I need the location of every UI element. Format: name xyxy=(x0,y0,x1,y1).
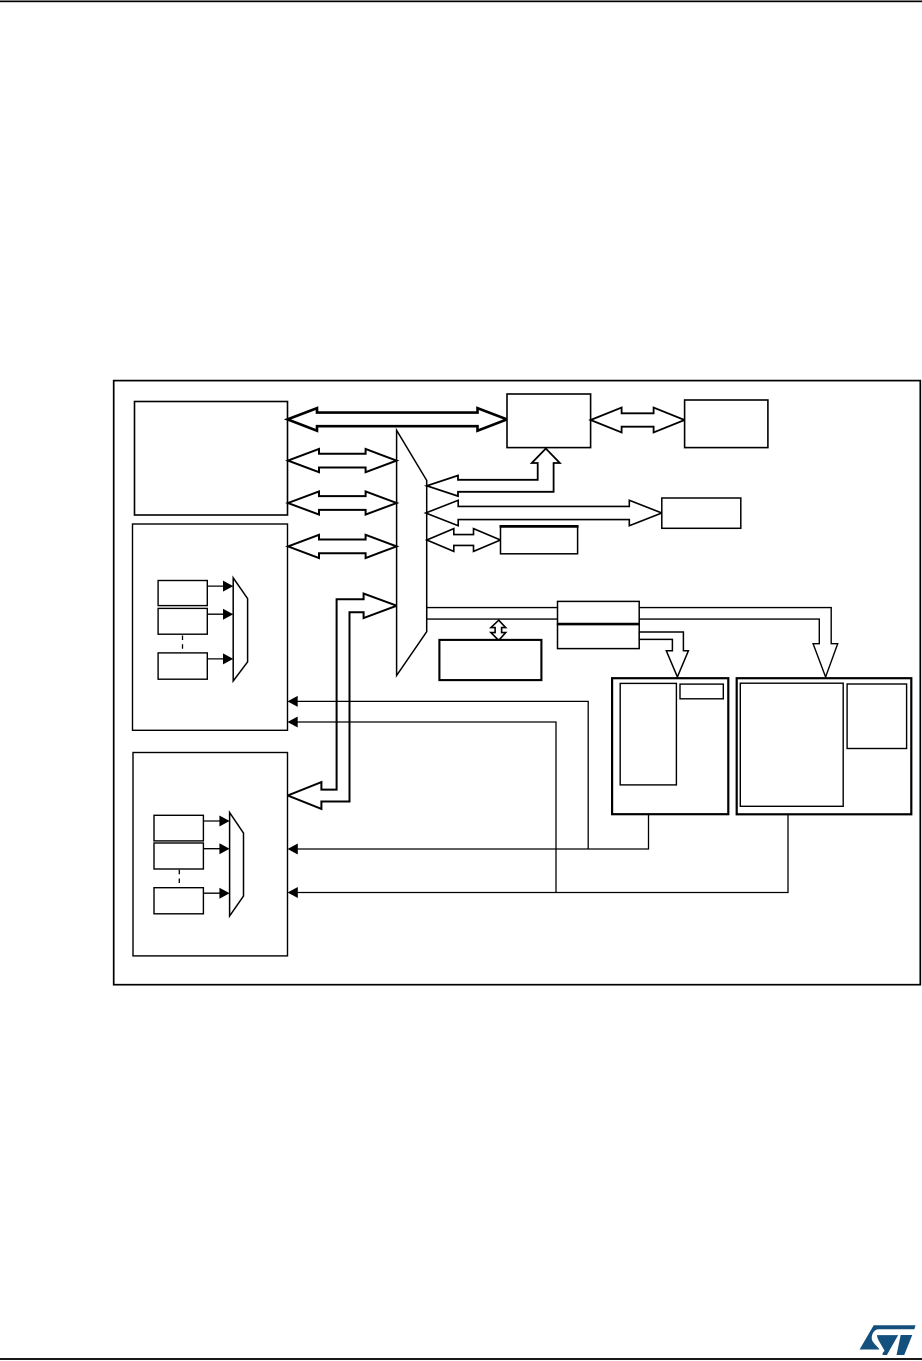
block Flash memory xyxy=(685,400,768,448)
bottom page rule xyxy=(0,1358,922,1360)
block Flash interface xyxy=(507,394,591,448)
block DMA1 channel 7 xyxy=(158,653,207,679)
logo STMicroelectronics xyxy=(860,1325,916,1355)
wire APB2 requests to DMA2 xyxy=(298,806,788,893)
wire APB1 requests to DMA2 xyxy=(298,785,649,849)
wire ch5 to arbiter2 xyxy=(203,892,220,894)
arrow DCode bus xyxy=(288,449,397,472)
arrow bus matrix to Flash I/F xyxy=(427,449,560,497)
block AHB-APB bridge 1 xyxy=(558,624,640,649)
arrowhead ch2-2 xyxy=(219,843,229,854)
arrow ICode bus (CPU to Flash I/F) xyxy=(288,408,508,431)
wire ch7 to arbiter xyxy=(207,658,224,660)
wire APB1 requests to DMA1 xyxy=(298,701,589,849)
arrow bus to SRAM xyxy=(491,620,506,640)
block APB1 peripheral list xyxy=(620,683,676,785)
arrowhead ch7 xyxy=(223,653,233,664)
arrow System bus xyxy=(288,491,397,514)
DMA2 arbiter xyxy=(230,813,244,917)
arrow DMA2 bus (bus matrix to DMA2) xyxy=(288,594,397,809)
arrowhead request DMA1-APB1 xyxy=(288,696,298,707)
block SRAM xyxy=(439,640,541,680)
block DMA2 xyxy=(133,753,288,956)
arrow bus matrix to FSMC xyxy=(427,529,501,552)
block DMA1 xyxy=(133,524,288,730)
block APB2 peripheral list xyxy=(740,683,843,806)
wire APB2 requests to DMA1 xyxy=(298,722,557,893)
arrow bridge to APB1 group xyxy=(639,632,688,677)
DMA1 channel ellipsis xyxy=(182,636,184,654)
block RCC xyxy=(662,498,741,528)
block DMA2 channel 1 xyxy=(154,815,203,841)
arrow Flash I/F to Flash memory xyxy=(591,408,685,433)
wire ch2 to arbiter xyxy=(207,613,224,615)
DMA2 channel ellipsis xyxy=(178,870,180,888)
arrowhead request DMA2-APB1 xyxy=(288,844,298,855)
block DMA2 channel 2 xyxy=(154,843,203,869)
wire AHB system bus + arrow to APB2 group xyxy=(427,608,838,677)
block DMA1 channel 2 xyxy=(158,608,207,634)
block FSMC xyxy=(501,526,578,553)
wire ch1 to arbiter xyxy=(207,585,224,587)
arrowhead ch1 xyxy=(223,581,233,592)
block DMA2 channel 5 xyxy=(154,888,203,914)
wire ch1 to arbiter2 xyxy=(203,820,220,822)
block Cortex-M3 CPU xyxy=(135,402,288,516)
group APB1 peripherals xyxy=(612,678,728,814)
arrowhead request DMA1-APB2 xyxy=(288,717,298,728)
block AHB-APB bridge 2 xyxy=(558,601,640,624)
block GPIO ports xyxy=(847,684,907,749)
arrowhead request DMA2-APB2 xyxy=(288,887,298,898)
arrow DMA1 channels bus xyxy=(288,535,397,558)
arrow bus matrix to RCC xyxy=(426,500,662,525)
top page rule xyxy=(0,1,922,3)
diagram frame xyxy=(114,381,921,985)
DMA1 arbiter xyxy=(233,578,247,681)
bus matrix xyxy=(397,430,427,675)
bridge divider xyxy=(558,623,640,626)
arrowhead ch5-2 xyxy=(219,888,229,899)
arrowhead ch1-2 xyxy=(219,816,229,827)
block DMA1 channel 1 xyxy=(158,581,207,606)
block DAC xyxy=(680,684,723,699)
group APB2 peripherals xyxy=(737,678,912,814)
wire ch2 to arbiter2 xyxy=(203,848,220,850)
arrowhead ch2 xyxy=(223,609,233,620)
FSMC thick top edge xyxy=(500,525,579,528)
